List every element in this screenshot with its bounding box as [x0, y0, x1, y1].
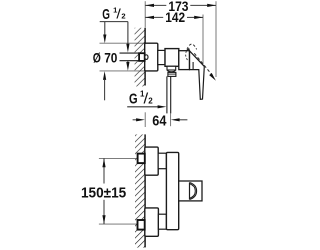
svg-text:70: 70: [104, 51, 117, 67]
svg-text:64: 64: [152, 113, 167, 129]
svg-text:G: G: [102, 7, 110, 23]
svg-text:2: 2: [148, 96, 153, 105]
svg-text:150±15: 150±15: [81, 186, 126, 202]
svg-text:1: 1: [140, 89, 145, 98]
svg-text:142: 142: [165, 10, 185, 26]
svg-text:2: 2: [121, 12, 125, 21]
svg-text:G: G: [129, 90, 138, 107]
svg-text:Ø: Ø: [93, 51, 101, 67]
